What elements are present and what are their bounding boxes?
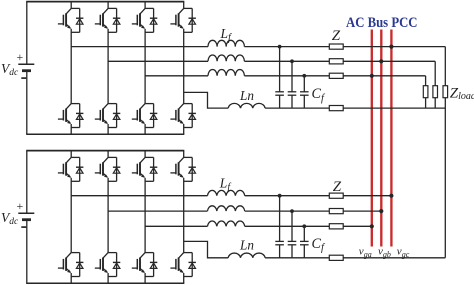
wire phase c inverter 1 filter to Z [244,75,329,77]
wire Zload b bottom to neutral [434,98,436,108]
wire leg 3 emitter tail (inverter 1) [144,124,146,134]
node bus connection phase c inverter 2 [370,224,374,228]
wire leg 1 emitter tail (inverter 1) [70,124,72,134]
AC bus phase b red busbar [380,30,382,247]
wire leg 2 midpoint column (inverter 2) [107,178,109,253]
wire DC source positive lead (inverter 2) [26,151,28,214]
wire leg 1 emitter tail (inverter 2) [70,273,72,283]
wire phase b inverter 2 filter to Z [245,210,330,212]
capacitor Cf phase c (inverter 1) [300,76,309,108]
wire DC- bottom rail (inverter 1) [26,133,184,135]
svg-text:vgb: vgb [378,246,391,259]
svg-text:Ln: Ln [239,88,254,103]
wire drop to load resistor 3 [444,47,446,86]
wire collector/emitter links of S22b [108,253,117,277]
node capacitor tap phase a inverter 2 [278,194,282,198]
inductor Lf phase b (inverter 2) [208,206,245,211]
wire phase c line inverter 1 (leg to filter) [145,75,208,77]
wire leg 2 midpoint column (inverter 1) [107,29,109,104]
wire phase a inverter 2 Z to bus [343,195,391,197]
wire phase c inverter 2 Z to bus [343,225,372,227]
wire DC+ top rail (inverter 2) [26,150,184,152]
svg-text:+: + [17,50,24,64]
svg-text:Cf: Cf [312,236,326,254]
IGBT S24b [170,253,183,273]
IGBT S22a [95,157,108,177]
wire phase c inverter 2 filter to Z [245,225,330,227]
resistor Z line impedance phase a (inverter 2) [329,193,343,198]
wire drop to load resistor 1 [425,76,427,86]
AC bus phase c red busbar [390,30,392,247]
resistor Z line impedance phase a (inverter 1) [329,44,343,49]
wire phase a inverter 1 filter to Z [244,46,329,48]
wire leg 3 collector riser (inverter 1) [144,2,146,9]
svg-text:+: + [17,199,24,213]
wire leg 4 midpoint column (inverter 2) [183,178,185,253]
IGBT S14a [170,8,183,28]
wire collector/emitter links of S12a [108,8,117,32]
wire leg 1 midpoint column (inverter 1) [70,29,72,104]
wire leg 4 collector riser (inverter 1) [183,2,185,9]
inductor Ln neutral (inverter 1) [228,103,265,108]
node capacitor tap phase b inverter 2 [290,209,294,213]
svg-text:AC Bus PCC: AC Bus PCC [346,15,418,31]
wire leg 2 collector riser (inverter 2) [107,151,109,158]
capacitor Cf phase c (inverter 2) [300,226,309,257]
svg-text:Lf: Lf [219,175,232,193]
wire collector/emitter links of S24b [184,253,193,277]
wire collector/emitter links of S13a [145,8,154,32]
wire phase c line inverter 2 (leg to filter) [145,225,207,227]
IGBT S24a [170,157,183,177]
resistor Z neutral impedance (inverter 1) [329,106,343,111]
wire Zload a bottom through neutral down to inverter 2 neutral [444,98,446,258]
IGBT S23a [132,157,145,177]
wire collector/emitter links of S14b [184,104,193,128]
svg-text:Zload: Zload [450,86,474,102]
diode S24aD (antiparallel) [189,157,196,181]
resistor Z line impedance phase b (inverter 2) [329,209,343,214]
inductor Lf phase b (inverter 1) [208,55,244,61]
capacitor Cf phase a (inverter 1) [275,47,284,109]
svg-text:Z: Z [332,28,341,44]
wire leg 1 collector riser (inverter 1) [70,2,72,9]
capacitor Cf phase b (inverter 1) [288,61,297,108]
resistor Z line impedance phase c (inverter 2) [329,224,343,229]
IGBT S22b [95,253,108,273]
IGBT S11b [58,104,71,124]
node bus connection phase c inverter 1 [370,74,374,78]
diode S13aD (antiparallel) [150,8,157,32]
resistor Zload phase b [433,86,438,98]
wire phase a inverter 1 Z to bus and load [343,46,445,48]
IGBT S11a [58,8,71,28]
IGBT S13b [132,104,145,124]
wire leg 4 midpoint column (inverter 1) [183,29,185,104]
IGBT S21a [58,157,71,177]
wire neutral line inverter 2 Z to right riser [343,257,445,259]
diode S23bD (antiparallel) [150,253,157,277]
wire Zload c bottom to neutral [425,98,427,108]
wire leg 4 collector riser (inverter 2) [183,151,185,158]
svg-text:Ln: Ln [239,238,254,253]
wire collector/emitter links of S11a [71,8,80,32]
wire collector/emitter links of S13b [145,104,154,128]
IGBT S13a [132,8,145,28]
resistor Z line impedance phase b (inverter 1) [329,59,343,64]
wire leg 3 collector riser (inverter 2) [144,151,146,158]
diode S11bD (antiparallel) [76,104,83,128]
wire DC+ top rail (inverter 1) [26,1,184,3]
wire DC source negative lead (inverter 1) [26,71,28,135]
wire leg 1 midpoint column (inverter 2) [70,178,72,253]
wire phase a inverter 2 filter to Z [245,195,330,197]
diode S14bD (antiparallel) [189,104,196,128]
wire leg 3 midpoint column (inverter 1) [144,29,146,104]
inductor Lf phase a (inverter 2) [208,190,245,195]
svg-text:Z: Z [333,179,342,195]
diode S24bD (antiparallel) [189,253,196,277]
wire collector/emitter links of S22a [108,157,117,181]
wire leg 2 emitter tail (inverter 2) [107,273,109,283]
node capacitor tap phase c inverter 1 [302,74,306,78]
node capacitor tap phase a inverter 1 [278,45,282,49]
capacitor Cf phase a (inverter 2) [275,196,284,258]
wire neutral branch from leg 4 (inverter 2) [184,241,229,257]
wire phase a line inverter 1 (leg to filter) [71,46,208,48]
wire leg 3 emitter tail (inverter 2) [144,273,146,283]
battery Vdc source (inverter 1) [18,64,34,71]
wire leg 4 emitter tail (inverter 1) [183,124,185,134]
wire DC source negative lead (inverter 2) [26,220,28,284]
wire leg 3 midpoint column (inverter 2) [144,178,146,253]
inductor Lf phase c (inverter 1) [208,70,244,76]
IGBT S12a [95,8,108,28]
wire leg 4 emitter tail (inverter 2) [183,273,185,283]
node bus connection phase a inverter 2 [389,194,393,198]
wire leg 2 collector riser (inverter 1) [107,2,109,9]
diode S22aD (antiparallel) [113,157,120,181]
node capacitor tap phase b inverter 1 [290,59,294,63]
diode S23aD (antiparallel) [150,157,157,181]
inductor Lf phase c (inverter 2) [208,221,245,226]
wire phase c inverter 1 Z to bus and load [343,75,425,77]
label battery minus (inverter 2) [21,226,26,228]
inductor Lf phase a (inverter 1) [208,40,244,46]
wire DC source positive lead (inverter 1) [26,2,28,65]
label battery minus (inverter 1) [21,77,26,79]
svg-text:vga: vga [359,246,372,259]
node bus connection phase b inverter 1 [379,59,383,63]
diode S21aD (antiparallel) [76,157,83,181]
IGBT S12b [95,104,108,124]
wire phase b line inverter 2 (leg to filter) [108,210,207,212]
svg-text:Cf: Cf [312,86,326,104]
wire DC- bottom rail (inverter 2) [26,282,184,284]
wire leg 1 collector riser (inverter 2) [70,151,72,158]
wire phase b inverter 2 Z to bus [343,210,381,212]
wire leg 2 emitter tail (inverter 1) [107,124,109,134]
wire neutral branch from leg 4 (inverter 1) [184,92,229,108]
diode S14aD (antiparallel) [189,8,196,32]
IGBT S21b [58,253,71,273]
wire collector/emitter links of S23b [145,253,154,277]
diode S21bD (antiparallel) [76,253,83,277]
wire collector/emitter links of S23a [145,157,154,181]
capacitor Cf phase b (inverter 2) [288,211,297,258]
IGBT S14b [170,104,183,124]
IGBT S23b [132,253,145,273]
resistor Z line impedance phase c (inverter 1) [329,73,343,78]
inductor Ln neutral (inverter 2) [228,253,265,258]
wire neutral line inverter 1 to Z [265,107,329,109]
node bus connection phase b inverter 2 [379,209,383,213]
battery Vdc source (inverter 2) [18,213,34,220]
wire neutral line inverter 1 Z to load [343,107,445,109]
wire collector/emitter links of S24a [184,157,193,181]
AC bus phase a red busbar [371,30,373,247]
svg-text:Lf: Lf [220,26,233,44]
wire collector/emitter links of S11b [71,104,80,128]
resistor Z neutral impedance (inverter 2) [329,255,343,260]
diode S11aD (antiparallel) [76,8,83,32]
wire collector/emitter links of S14a [184,8,193,32]
wire neutral line inverter 2 to Z [265,257,329,259]
wire phase b inverter 1 filter to Z [244,60,329,62]
resistor Zload phase a [443,86,448,98]
wire phase b line inverter 1 (leg to filter) [108,60,208,62]
resistor Zload phase c [423,86,428,98]
wire phase b inverter 1 Z to bus and load [343,60,435,62]
node bus connection phase a inverter 1 [389,45,393,49]
diode S22bD (antiparallel) [113,253,120,277]
wire phase a line inverter 2 (leg to filter) [71,195,207,197]
wire collector/emitter links of S21a [71,157,80,181]
diode S12aD (antiparallel) [113,8,120,32]
diode S12bD (antiparallel) [113,104,120,128]
wire collector/emitter links of S21b [71,253,80,277]
wire drop to load resistor 2 [434,61,436,85]
svg-text:vgc: vgc [397,246,410,259]
node capacitor tap phase c inverter 2 [302,224,306,228]
wire collector/emitter links of S12b [108,104,117,128]
diode S13bD (antiparallel) [150,104,157,128]
